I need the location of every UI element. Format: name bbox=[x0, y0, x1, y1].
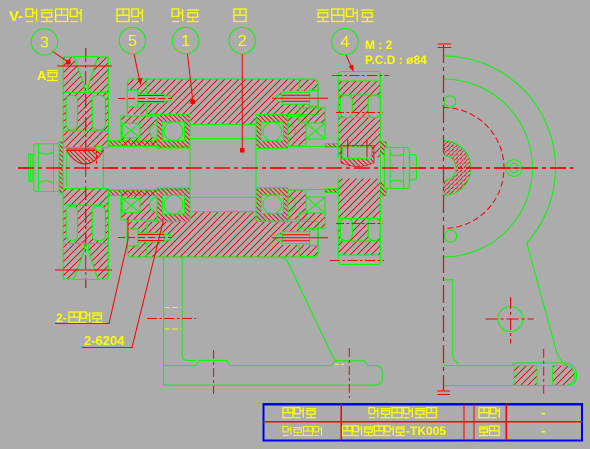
spacer sleeve bottom bbox=[108, 190, 157, 196]
cover bolt bottom-right bbox=[310, 230, 318, 246]
shaft right tip bbox=[410, 155, 417, 181]
side view centerline overlay bbox=[443, 45, 445, 391]
hub half section hatched bbox=[444, 141, 471, 196]
title block frame bbox=[264, 404, 583, 440]
bolt circle (red dashed) bbox=[444, 108, 504, 229]
leader to cover bbox=[134, 54, 141, 85]
leg hidden bolt lines bbox=[165, 307, 182, 309]
pulley bore key section bbox=[96, 146, 102, 150]
title text projection bbox=[479, 426, 489, 428]
svg-text:2-6204: 2-6204 bbox=[84, 333, 125, 348]
balloon 3 bbox=[31, 29, 57, 55]
hex nut right bbox=[385, 147, 410, 188]
washer left (red hatch) bbox=[59, 142, 63, 194]
wire shaft axis centerline bbox=[18, 167, 573, 169]
pulley V-groove bottom bbox=[74, 244, 98, 280]
boss circle bbox=[498, 307, 523, 332]
svg-text:-: - bbox=[541, 423, 545, 438]
front base bbox=[164, 360, 383, 385]
pulley web cutout holes bbox=[66, 96, 77, 130]
oil seal bottom-right X-box bbox=[306, 197, 325, 213]
bolt recess top-right bbox=[281, 91, 318, 104]
title text product name bbox=[283, 408, 293, 418]
spacer sleeve top bbox=[108, 141, 157, 147]
bolt hole top bbox=[444, 96, 456, 108]
pulley V-groove top bbox=[74, 57, 98, 93]
svg-text:2: 2 bbox=[238, 33, 247, 50]
right strut bbox=[280, 257, 338, 361]
side view vertical centerline bbox=[443, 45, 445, 391]
bolt recess bottom-right bbox=[281, 232, 318, 245]
pulley rim lines bbox=[63, 92, 108, 94]
V-belt pulley body bbox=[63, 57, 108, 279]
hex nut left bbox=[34, 144, 59, 192]
svg-text:5: 5 bbox=[128, 33, 137, 50]
title text device code bbox=[343, 426, 353, 436]
svg-text:-TK005: -TK005 bbox=[406, 424, 446, 438]
pulley key seat (red) bbox=[67, 151, 104, 165]
base hatch pads bbox=[514, 366, 537, 386]
leader to body bbox=[188, 54, 193, 101]
label cover bbox=[117, 9, 129, 22]
title text drawing number bbox=[283, 427, 288, 432]
svg-text:2-: 2- bbox=[56, 311, 67, 325]
title text scale bbox=[479, 408, 489, 418]
bolt hole right (double circle) bbox=[506, 160, 523, 177]
node pulley centerline bbox=[85, 48, 87, 288]
gear hub key area bbox=[341, 145, 374, 166]
cover bolt top-left bbox=[127, 90, 138, 107]
gear tooth top bbox=[338, 72, 380, 82]
seal holder right hatched bbox=[288, 117, 306, 147]
svg-text:M : 2: M : 2 bbox=[365, 38, 393, 52]
svg-text:1: 1 bbox=[181, 33, 190, 50]
cover flange interface line bbox=[146, 80, 148, 116]
pulley hub bore bbox=[63, 148, 108, 189]
gear bore bbox=[338, 158, 380, 179]
housing body hatched walls bbox=[127, 79, 318, 115]
pulley centerline overlay bbox=[85, 48, 87, 288]
spacer at gear left bbox=[325, 143, 338, 147]
seal holder boss outline top-right bbox=[299, 80, 318, 92]
base centerline left bbox=[213, 350, 215, 394]
balloon 2 bbox=[229, 27, 255, 53]
side view bottom arc + wall bbox=[444, 280, 460, 364]
wire shaft axis centerline (overlay) bbox=[18, 167, 573, 169]
bearing 6204 right bbox=[256, 115, 288, 149]
pulley outline bbox=[63, 57, 108, 279]
base bolt centerline bbox=[543, 349, 545, 397]
shaft right journal bbox=[288, 147, 338, 190]
label body bbox=[172, 9, 179, 17]
shaft journal left bbox=[108, 145, 190, 147]
label spur gear bbox=[317, 9, 329, 11]
oil seal top-right X-box bbox=[306, 123, 325, 139]
svg-text:A: A bbox=[37, 68, 47, 83]
left leg bbox=[163, 257, 165, 366]
shaft center section bbox=[190, 139, 256, 198]
bearing 6204 left bbox=[157, 115, 190, 149]
svg-text:4: 4 bbox=[340, 34, 349, 51]
housing outline bbox=[127, 79, 318, 257]
svg-text:P.C.D : ø84: P.C.D : ø84 bbox=[365, 53, 427, 67]
gear tooth bottom bbox=[338, 255, 380, 265]
svg-text:V-: V- bbox=[9, 8, 23, 25]
washer right (red hatch) bbox=[380, 142, 386, 196]
balloon 5 bbox=[119, 27, 145, 53]
side view body circle bbox=[444, 79, 533, 257]
bolt hole bottom bbox=[445, 230, 457, 242]
oil seal top-left X-box bbox=[122, 123, 140, 138]
svg-text:3: 3 bbox=[40, 35, 49, 52]
cover bolt top-right bbox=[310, 91, 318, 107]
leader to shaft bbox=[241, 54, 243, 150]
gear pitch lines bbox=[332, 75, 389, 77]
side view base bbox=[444, 363, 577, 386]
leader to pulley bbox=[52, 51, 68, 62]
label shaft bbox=[234, 9, 246, 22]
svg-text:-: - bbox=[541, 405, 545, 420]
base centerline right bbox=[348, 348, 350, 398]
cavity step hatch between bearings bbox=[190, 114, 256, 125]
spur gear hatched body bbox=[338, 81, 380, 255]
cover bolt bottom-left bbox=[127, 229, 138, 246]
title text device name bbox=[369, 408, 375, 414]
balloon 1 bbox=[173, 27, 199, 53]
shaft left tip bbox=[29, 154, 34, 182]
oil seal bottom-left X-box bbox=[122, 198, 140, 213]
gear web cutouts bbox=[340, 96, 352, 118]
side view outer flange arc bbox=[444, 56, 569, 366]
gear outline bbox=[338, 81, 380, 255]
balloon 4 bbox=[332, 29, 358, 55]
cover left hatched bbox=[121, 116, 157, 146]
leader to gear bbox=[346, 55, 354, 72]
